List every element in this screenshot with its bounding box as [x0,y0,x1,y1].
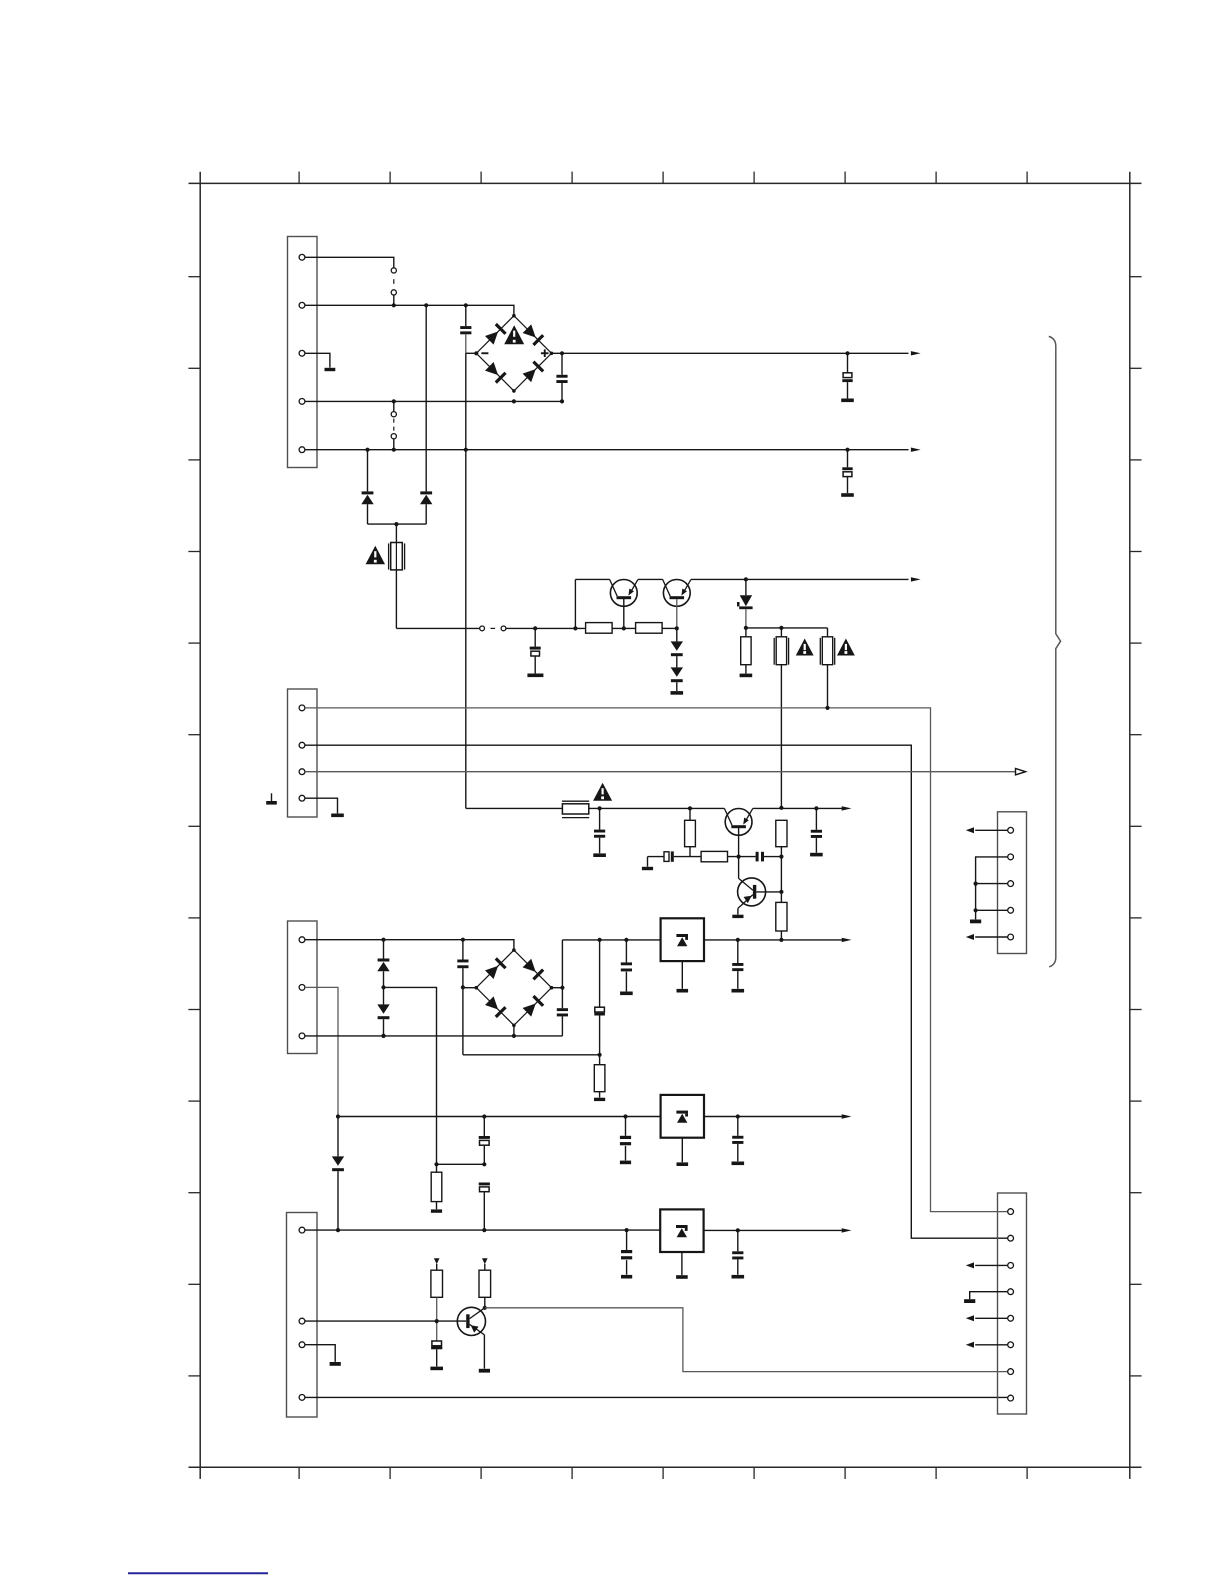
wire B2 right corner [552,987,563,989]
connector J2 pin 1 [299,705,305,711]
wire B2 plus riser [561,940,563,1008]
wire P2 down to bus [827,665,829,708]
junction B2 plus [560,986,564,990]
diode D7 [332,1117,344,1231]
resistor R8 [594,1055,605,1098]
capacitor C18 polarized [479,1183,490,1231]
ground at R8 [594,1098,605,1101]
connector J1 pin 1 [299,254,305,260]
wire AC2 riser corner to fuse F2 [466,807,562,809]
junction P1 on rail [779,806,783,810]
junction D1 branch [365,448,369,452]
junction bus node [598,1053,602,1057]
wire J1-4 AC neutral line [305,400,562,402]
junction D6 on return [381,1034,385,1038]
ground at U3 [676,1275,688,1279]
connector J1 pin 5 [299,447,305,453]
ground at C6 [593,853,606,857]
junction C9 [814,806,818,810]
diode D4 [671,667,683,691]
junction J5-4 bus [974,908,978,912]
capacitor C1 across AC input [460,305,471,353]
capacitor C12 [621,940,632,992]
capacitor C20 [732,1230,743,1274]
arrow U3 output [842,1228,852,1232]
junction C2 top [560,351,564,355]
switch S2 contact circles and dash [480,626,506,631]
wire rail riser [574,579,576,628]
connector J3 body [288,921,318,1054]
bridge rectifier B2 [475,948,554,1027]
grouping brace for outputs [1049,336,1061,966]
fuse F2 [562,801,589,817]
connector J2 pin 4 [299,795,305,801]
junction C20 [736,1228,740,1232]
junction B2 bottom on return [512,1034,516,1038]
junction C3 branch [845,351,849,355]
junction C15 [623,1114,627,1118]
resistor R7 [776,902,787,931]
connector J6 pin 3 [1008,1263,1014,1269]
resistor R1 [586,623,613,634]
ground at U1 [677,989,689,993]
net arrow into R10 [434,1258,440,1270]
wire U2 output [704,1116,844,1118]
connector J2 pin 3 [299,769,305,775]
arrow U1 output [842,938,852,942]
resistor R5 [701,851,727,861]
connector J1 body [288,237,318,468]
wire J1-1 to switch S1a [305,257,394,267]
wire B2 left corner [463,987,476,989]
transistor T2 [663,579,691,606]
ground at C3 [841,399,854,403]
diode D5 [377,940,389,988]
junction C18 bottom [482,1228,486,1232]
junction D7 bottom [336,1228,340,1232]
connector J3 pin 3 [299,1033,305,1039]
open arrow J2-3 [1016,769,1026,775]
wire P1 down to regulator rail [780,665,782,808]
junction AC-L / C1 branch [464,303,468,307]
junction fuse feed [394,522,398,526]
junction C17 riser top [482,1114,486,1118]
capacitor C17 polarized [479,1117,490,1165]
switch S1a contact circles and dashed actuator [391,268,396,306]
wire Q1 base down [738,828,740,878]
ground at D4 [671,691,684,695]
wire net J2-1 to J6-1 [305,708,1008,1212]
connector J5 body [998,812,1027,954]
wire J5-5 with arrow [966,934,1008,940]
wire J6-5 with arrow [966,1315,1008,1321]
junction posistor P1 [779,626,783,630]
junction riser +B [779,938,783,942]
ground at Q3 emitter [479,1369,490,1373]
wire rail Q1 to arrow [753,807,844,809]
ground at J4-3 [330,1362,341,1366]
capacitor C3 polarized to ground [842,353,852,398]
wire J1-2 AC line to bridge B1 top [305,305,514,315]
capacitor C14 [457,940,468,988]
junction C14 branch [461,938,465,942]
wire U1 ground pin [681,961,683,989]
connector J4 pin 1 [299,1227,305,1233]
junction T1 leg [622,626,626,630]
capacitor C16 [732,1117,743,1162]
wire bus from AC2 riser [463,1054,600,1056]
wire T1 base leg [623,599,625,628]
junction B2 left corner [461,985,465,989]
wire J1-3 to ground [305,353,330,367]
junction Q2 collector [779,890,783,894]
wire J6-3 with arrow [966,1262,1008,1268]
wire U3 ground pin [681,1252,683,1275]
ground at Q2 emitter [732,915,743,918]
wire J5-3 [976,883,1008,885]
wire J6-4 to ground [970,1292,1008,1299]
zener diode ZD1 [737,579,753,628]
transistor Q1 pass [724,808,752,835]
connector J3 pin 2 [299,985,305,991]
wire J4-2 to Q3 base [305,1320,466,1322]
ground at C16 [732,1162,745,1166]
connector J2 body [288,689,318,817]
ground at C4 [841,493,854,497]
junction feedback riser node [779,855,783,859]
wire J1-5 / unswitched AC output line [305,449,909,451]
capacitor C5 polarized to ground [530,628,541,673]
junction C12 [624,938,628,942]
diode D1 [361,450,373,524]
connector J1 pin 4 [299,399,305,405]
bridge rectifier B1 [475,314,554,393]
junction rail riser [573,626,577,630]
resistor R4 [685,808,696,856]
warning triangle at P1 [796,639,814,656]
ground at R9 [431,1209,442,1212]
junction R10 on J4-2 line [435,1319,439,1323]
junction C13 [736,938,740,942]
transistor T1 [610,579,638,606]
arrow top rail output [911,577,921,581]
junction zener bottom [744,626,748,630]
connector J1 pin 3 [299,350,305,356]
ground at C21 [430,1367,443,1371]
wire R1-R2 [612,627,636,629]
connector J4 pin 3 [299,1342,305,1348]
wire third rail [305,1229,660,1231]
connector J6 pin 2 [1008,1235,1014,1241]
connector J2 pin 2 [299,742,305,748]
arrow +DC output [911,351,921,355]
capacitor C13 [732,940,743,989]
junction vertical neutral riser [464,448,468,452]
regulator U3 [660,1209,703,1252]
capacitor C9 to ground [811,808,822,852]
wire bridge B1 + output line [552,352,909,354]
junction C16 [736,1114,740,1118]
connector J5 pin 4 [1008,907,1014,913]
junction zener ZD1 [744,577,748,581]
wire J5-1 with arrow [966,827,1008,833]
capacitor C10 [557,1008,568,1036]
resistor R2 [636,623,663,634]
connector J4 pin 2 [299,1318,305,1324]
capacitor C11 polarized [594,940,605,1055]
wire +B rail to regulator U1 [562,939,660,941]
junction S1b on N line [392,399,396,403]
connector J5 pin 3 [1008,881,1014,887]
junction D6 bottom [381,1034,385,1038]
wire C8 to feedback riser [764,856,781,858]
ground at C20 [732,1275,745,1279]
connector J6 pin 8 [1008,1395,1014,1401]
wire zener bus [746,627,828,629]
ground at C12 [620,992,633,996]
junction S1a on L line [392,303,396,307]
wire U1 output [704,939,844,941]
wire diode join [368,523,427,525]
connector J4 body [287,1213,318,1418]
drawing frame border with reference ticks [188,172,1141,1479]
wire Q3 collector route to J6-7 [485,1308,1008,1372]
junction C4 branch [845,448,849,452]
diode D3 [671,628,683,667]
wire net J4-4 to J6-8 [305,1396,1008,1398]
posistor P2 [820,628,834,665]
net arrow into R11 [482,1258,488,1270]
capacitor C6 to ground [594,808,605,853]
ground at C13 [732,989,745,993]
junction D5-D6 node [381,985,385,989]
ground at C9 [810,853,823,857]
diode D2 [420,305,432,524]
chassis ground symbol [266,793,277,804]
junction bridge left corner [474,351,478,355]
junction C6 [598,806,602,810]
connector J6 pin 7 [1008,1369,1014,1375]
vertical AC2 riser to lower section [465,353,467,808]
connector J6 pin 6 [1008,1342,1014,1348]
ground stub error amp [642,857,653,871]
transistor Q3 [457,1307,485,1368]
junction C5 [533,626,537,630]
wire J5-4 [976,909,1008,911]
wire net J2-2 to J6-2 [305,745,1008,1238]
capacitor C8 series [756,852,764,862]
wire top rail segment 1 [575,578,609,580]
switch S1b contact circles and dashed actuator [391,401,396,449]
wire net J2-3 signal [305,771,1016,773]
ground at J1-3 [325,368,336,371]
warning triangle at F1 [366,546,385,564]
junction riser mid node [482,1162,486,1166]
transistor Q2 [738,878,782,915]
warning triangle at P2 [837,639,855,656]
connector J5 pin 2 [1008,854,1014,860]
junction S1b lower [392,448,396,452]
wire U2 ground pin [681,1138,683,1163]
wire gnd to C7 [648,856,665,858]
wire F1 to power rail [395,570,397,628]
wire tap to riser [437,1163,485,1165]
wire top rail segment 2 [638,578,663,580]
arrow output AC line [911,448,921,452]
ground at U2 [677,1162,689,1166]
resistor R9 [431,1164,442,1209]
resistor R10 [431,1270,443,1341]
junction Q3 collector node [483,1306,487,1310]
ground at C15 [620,1161,631,1165]
wire J6-6 with arrow [966,1342,1008,1348]
connector J5 pin 5 [1008,934,1014,940]
wire top rail segment 3 [691,578,909,580]
junction Q1 base node [737,855,741,859]
junction R4 [688,806,692,810]
arrow regulator rail output [842,806,852,810]
diode D6 [377,987,389,1036]
arrow U2 output [842,1114,852,1118]
connector J5 pin 1 [1008,827,1014,833]
wire to fuse F1 [395,524,397,543]
ground at J6-4 [964,1299,975,1303]
junction C2 on N line [560,399,564,403]
ground at C5 [527,674,543,678]
warning triangle at F2 [593,783,612,801]
resistor R11 [479,1270,491,1308]
wire fuse to switch S2 [396,627,479,629]
wire U3 output [704,1229,844,1231]
capacitor C4 polarized to ground [842,450,852,493]
regulator U2 [661,1095,704,1138]
junction D7 top [336,1114,340,1118]
wire J5-2 bus [976,857,1008,920]
wire J3-2 to second reg rail [305,987,338,1116]
resistor R6 [776,820,787,846]
wire J4-3 to ground [305,1345,335,1362]
capacitor C2 smoothing [556,353,567,401]
wire riser to +B line [780,931,782,940]
capacitor C15 [620,1117,631,1161]
resistor R3 [741,628,751,674]
fuse F1 [389,543,405,571]
wire B2 bottom stub [513,1025,515,1036]
ground at J2-4 [331,814,344,818]
posistor P1 [774,628,788,665]
wire AC2 riser to bus [462,987,464,1054]
wire R2 to T2 leg [662,627,677,629]
wire J3-3 return line [305,1035,563,1037]
junction C19 [625,1228,629,1232]
junction J5-3 bus [974,882,978,886]
wire C7 to R5 [674,856,701,858]
connector J6 pin 5 [1008,1315,1014,1321]
wire R5 to node [728,856,756,858]
junction AC-L / D2 branch [424,303,428,307]
connector J3 pin 1 [299,937,305,943]
wire node to half-wave tap [384,987,437,1164]
capacitor C21 polarized [431,1341,442,1366]
connector J1 pin 2 [299,302,305,308]
wire S2 to rail junction [506,627,586,629]
wire J2-4 to ground [305,798,338,813]
junction C11 riser [598,938,602,942]
wire bridge B1 left corner [466,352,477,354]
junction tap [434,1162,438,1166]
wire riser R6-R7 [780,847,782,903]
capacitor C19 [621,1230,632,1275]
blue underline bottom-left [128,1572,268,1574]
wire second rail [338,1116,661,1118]
ground at C19 [621,1275,632,1279]
ground at R3 [740,674,753,678]
regulator U1 [661,918,704,961]
connector J4 pin 4 [299,1395,305,1401]
junction bridge B1 bottom on N line [512,399,516,403]
capacitor C7 polarized series [664,851,674,861]
wire rail F2 to Q1 [589,807,725,809]
junction D5 branch [381,938,385,942]
connector J6 pin 1 [1008,1209,1014,1215]
ground at J5 bus [970,920,981,924]
connector J6 pin 4 [1008,1289,1014,1295]
junction P2 on J2-1 net [825,706,829,710]
junction T2 leg [675,626,679,630]
wire J3-1 AC to bridge B2 top [305,940,514,950]
wire T2 base leg [676,599,678,628]
connector J6 body [998,1193,1027,1414]
